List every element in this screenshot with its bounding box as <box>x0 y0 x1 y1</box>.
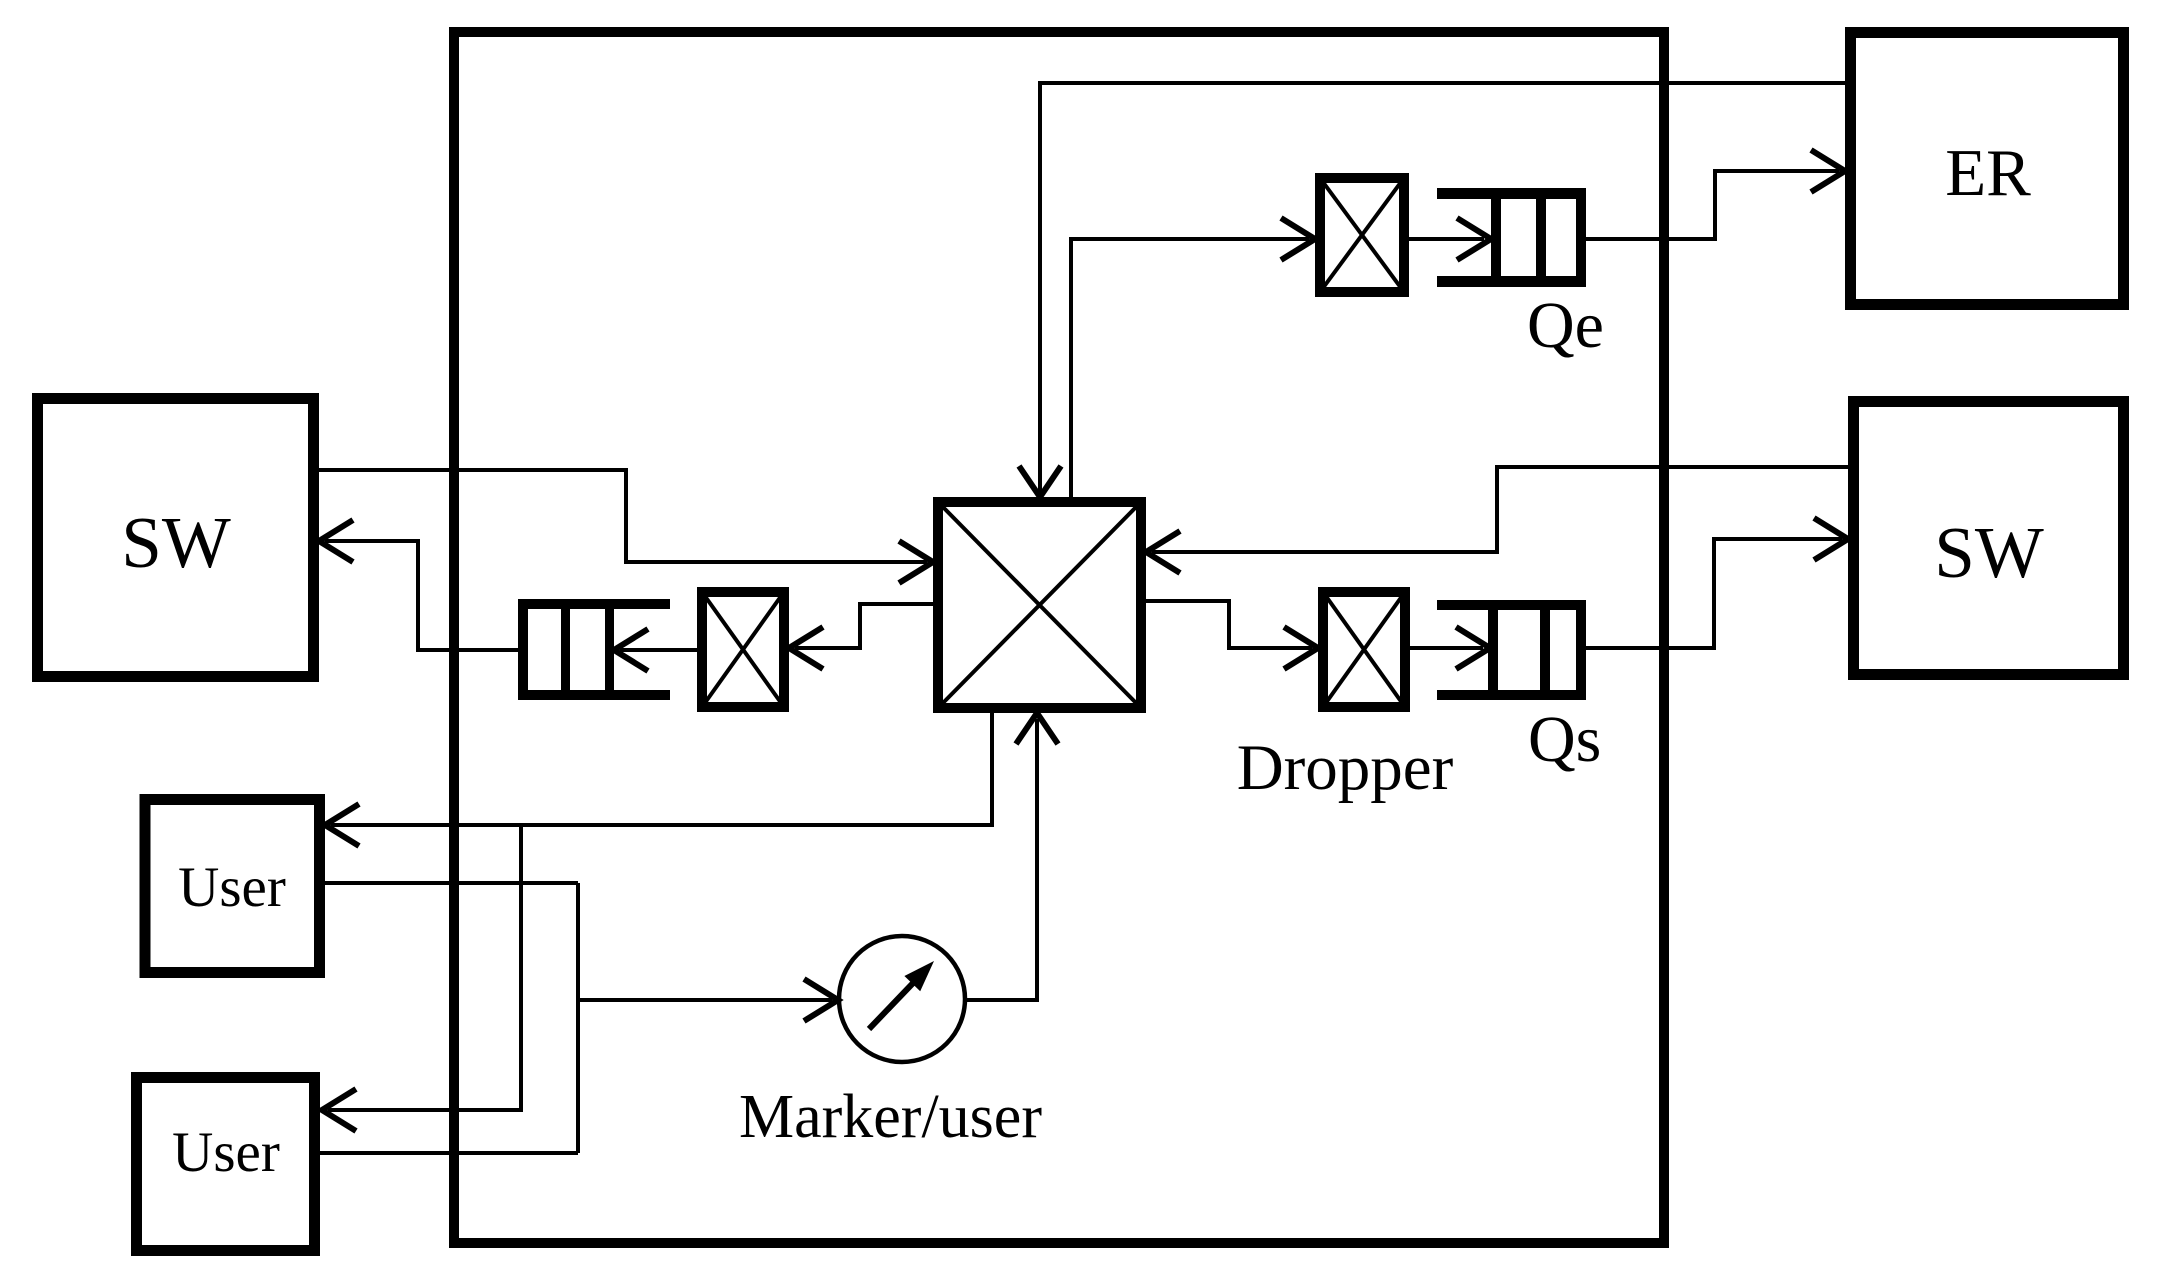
queue left (toward SW left) <box>518 599 670 700</box>
svg-text:SW: SW <box>121 502 231 583</box>
svg-text:SW: SW <box>1934 512 2044 593</box>
wire classifier to dropper right <box>1146 601 1312 648</box>
User box 1 <box>145 800 320 973</box>
marker circle <box>839 936 965 1062</box>
svg-text:Qs: Qs <box>1528 703 1601 776</box>
wire dropper left to queue left <box>620 648 702 652</box>
SW left box <box>38 399 314 677</box>
dropper left (to SW left) <box>702 592 784 707</box>
wire classifier down to users <box>331 713 992 825</box>
svg-text:User: User <box>178 856 286 919</box>
wire marker to classifier bottom <box>966 719 1037 1000</box>
main router box <box>454 32 1664 1243</box>
classifier crossed box <box>938 502 1141 708</box>
wire classifier to dropper left <box>795 604 933 648</box>
dropper right (Qs path) <box>1323 592 1405 707</box>
ER box <box>1851 33 2124 305</box>
wire bus to marker <box>578 998 832 1002</box>
wire queue Qe to ER <box>1586 171 1839 239</box>
wire dropper Qe to queue Qe <box>1404 237 1484 241</box>
svg-text:Marker/user: Marker/user <box>739 1083 1042 1151</box>
branch to user 2 <box>328 825 521 1110</box>
User box 2 <box>137 1078 315 1251</box>
wire user 1 out to bus <box>323 881 578 885</box>
wire ER to classifier top <box>1040 83 1845 497</box>
wire dropper right to queue Qs <box>1405 646 1483 650</box>
wire queue Qs to SW right <box>1586 539 1842 648</box>
svg-text:ER: ER <box>1945 136 2031 210</box>
svg-text:Qe: Qe <box>1527 289 1604 362</box>
SW right box <box>1854 402 2124 675</box>
wire user 2 out to bus <box>320 1151 578 1155</box>
queue Qs <box>1437 600 1586 700</box>
wire SW right to classifier <box>1152 467 1848 552</box>
queue Qe <box>1437 188 1586 287</box>
svg-text:User: User <box>172 1121 280 1184</box>
wire queue left to SW left <box>325 541 518 650</box>
svg-text:Dropper: Dropper <box>1237 732 1454 804</box>
wire SW left to classifier <box>319 470 927 562</box>
dropper top (Qe path) <box>1320 178 1404 292</box>
wire classifier top to dropper Qe <box>1071 239 1309 497</box>
bus vertical <box>576 883 580 1153</box>
